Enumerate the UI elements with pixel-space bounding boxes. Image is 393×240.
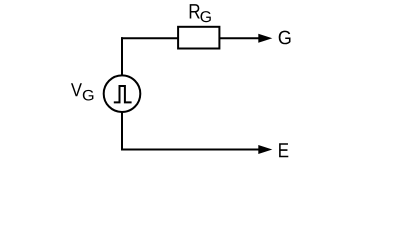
wire: bottom horizontal to E arrow bbox=[121, 149, 266, 151]
wire: left vertical from top corner down to source circle top bbox=[121, 37, 123, 75]
pulse waveform symbol inside source bbox=[114, 86, 132, 102]
arrowhead at terminal E bbox=[258, 145, 272, 154]
wire: bottom vertical from source circle bottom to corner bbox=[121, 112, 123, 151]
label R of RG bbox=[190, 4, 200, 18]
arrowhead at terminal G bbox=[258, 34, 272, 43]
wire: from resistor right side to G arrow bbox=[219, 37, 266, 39]
wire: top horizontal from corner to resistor bbox=[121, 37, 178, 39]
label subscript G of VG bbox=[83, 90, 94, 101]
terminal label E bbox=[279, 143, 288, 157]
voltage source VG circle bbox=[104, 75, 141, 112]
label subscript G of RG bbox=[201, 11, 211, 22]
label V of VG bbox=[71, 83, 82, 96]
resistor RG body bbox=[178, 27, 219, 49]
terminal label G bbox=[279, 31, 291, 45]
